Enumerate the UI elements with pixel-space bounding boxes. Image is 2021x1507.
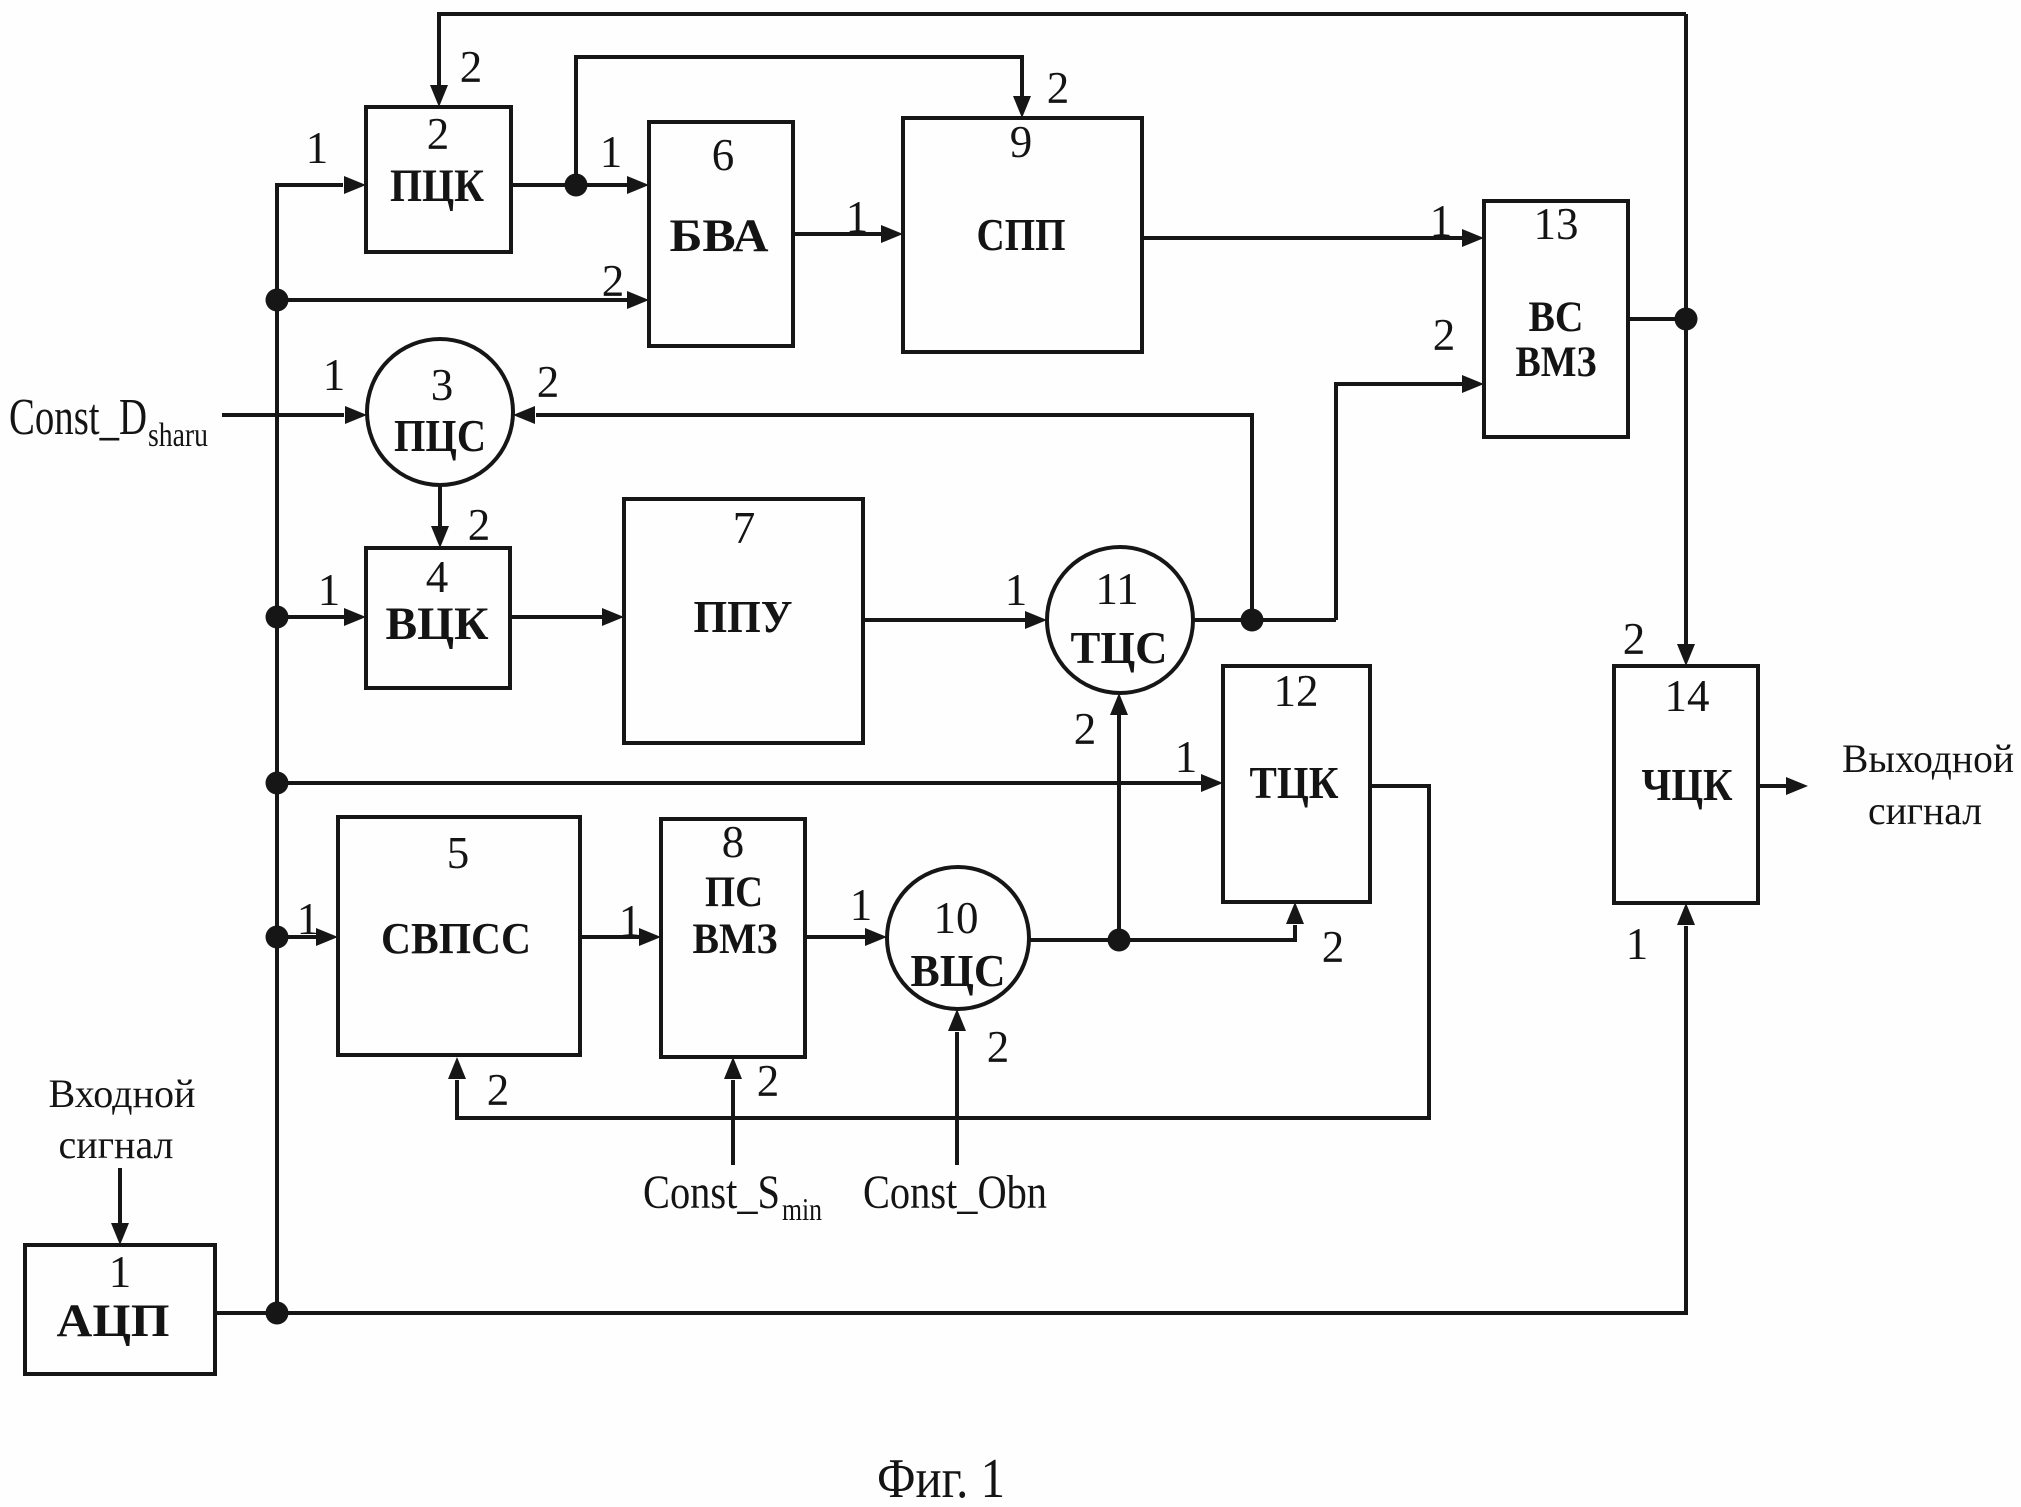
svg-text:13: 13 [1534,199,1579,249]
svg-text:Const_Obn: Const_Obn [863,1166,1047,1219]
block U7 ППУ [624,499,863,743]
svg-text:6: 6 [712,130,735,180]
svg-text:1: 1 [1430,196,1453,246]
svg-text:ВЦС: ВЦС [911,946,1006,996]
svg-text:сигнал: сигнал [1868,788,1982,833]
svg-text:1: 1 [323,350,346,400]
label Const_Obn [863,1166,1047,1219]
svg-text:1: 1 [850,880,873,930]
svg-text:12: 12 [1274,666,1319,716]
svg-text:АЦП: АЦП [57,1295,170,1347]
svg-text:5: 5 [447,828,470,878]
wire ТЦС output branch up to ВС ВМЗ input 2 [1336,310,1484,620]
svg-text:1: 1 [109,1247,132,1297]
svg-text:sharu: sharu [148,417,208,454]
svg-text:2: 2 [1322,922,1345,972]
svg-text:4: 4 [426,552,449,602]
block U6 БВА [649,122,793,346]
svg-text:ПЦС: ПЦС [394,411,486,461]
junction dot trunk-ТЦК [266,772,289,795]
svg-text:ТЦС: ТЦС [1071,623,1168,673]
svg-text:1: 1 [846,192,869,242]
wire trunk branch to ВЦК input 1 [277,565,366,626]
svg-text:ЧЦК: ЧЦК [1642,759,1733,810]
wire ВЦК output to ППУ [510,608,624,626]
svg-text:2: 2 [468,500,491,550]
wire СПП output to ВС ВМЗ input 1 [1142,196,1484,247]
wire ПЦК output up over to СПП input 2 [576,57,1069,185]
svg-text:2: 2 [537,357,560,407]
svg-text:1: 1 [306,123,329,173]
svg-text:СПП: СПП [977,210,1066,260]
svg-text:БВА: БВА [670,210,769,262]
block U12 ТЦК [1223,666,1370,902]
junction dot trunk-ВЦК [266,606,289,629]
label Const_D_sharu [9,389,208,454]
wire ППУ output 1 to ТЦС [863,565,1047,629]
svg-text:1: 1 [297,894,320,944]
svg-text:2: 2 [602,256,625,306]
wire feedback top horizontal to ПЦК input 2 [430,14,1686,107]
svg-text:2: 2 [1047,63,1070,113]
junction dot ПЦК output [565,174,588,197]
svg-text:14: 14 [1665,671,1710,721]
junction dot ТЦС output [1241,609,1264,632]
svg-text:СВПСС: СВПСС [381,914,531,963]
svg-text:3: 3 [431,360,454,410]
block U14 ЧЦК [1614,666,1758,903]
svg-text:ПЦК: ПЦК [390,160,484,212]
wire trunk branch to БВА input 2 [277,256,649,309]
svg-text:2: 2 [487,1065,510,1115]
block U2 ПЦК [366,107,511,252]
wire БВА output 1 to СПП input 1 [793,192,903,243]
wire trunk branch to СВПСС input 1 [277,894,338,946]
svg-text:11: 11 [1095,564,1138,614]
svg-text:ТЦК: ТЦК [1250,757,1339,808]
svg-text:ПС: ПС [705,869,763,916]
block U5 СВПСС [338,817,580,1055]
svg-text:ВМЗ: ВМЗ [1516,339,1597,386]
block U9 СПП [903,117,1142,352]
svg-text:2: 2 [1623,614,1646,664]
svg-text:7: 7 [733,503,756,553]
svg-text:Фиг. 1: Фиг. 1 [877,1448,1005,1507]
svg-text:1: 1 [600,127,623,177]
wire input signal arrow into АЦП [111,1168,129,1245]
wire СВПСС output 1 to ПС ВМЗ input 1 [580,896,661,946]
wire Const_D_sharu to ПЦС input 1 [222,350,367,424]
wire ТЦК output feedback to СВПСС input 2 [448,786,1429,1118]
svg-text:ВМЗ: ВМЗ [693,916,778,963]
wire ПЦК output 1 to БВА input 1 [511,127,649,194]
svg-text:Const_S: Const_S [643,1166,780,1219]
svg-text:1: 1 [318,565,341,615]
svg-text:Входной: Входной [49,1071,196,1116]
wire main trunk from ADC up to ПЦК input 1 [277,123,366,1313]
svg-text:1: 1 [1626,919,1649,969]
svg-text:8: 8 [722,817,745,867]
label Входной сигнал (input signal) [49,1071,196,1167]
junction dot АЦП output on trunk [266,1302,289,1325]
block U13 ВС ВМЗ [1484,199,1628,437]
junction dot ВС ВМЗ output [1675,308,1698,331]
svg-text:Const_D: Const_D [9,389,147,446]
adder U11 ТЦС (circle) [1047,547,1193,693]
svg-text:min: min [782,1191,822,1227]
wire ВС ВМЗ output to vertical trunk [1628,317,1686,321]
svg-text:1: 1 [1005,565,1028,615]
svg-text:ВС: ВС [1529,294,1584,341]
wire ВЦС output up to ТЦС input 2 [1074,693,1128,940]
wire ТЦС output up to ПЦС input 2 [513,357,1252,620]
svg-text:1: 1 [619,896,642,946]
block U4 ВЦК [366,548,510,688]
svg-text:1: 1 [1175,732,1198,782]
wire ЧЦК output (Выходной сигнал) [1758,777,1808,795]
svg-text:2: 2 [757,1056,780,1106]
block U8 ПС ВМЗ [661,817,805,1057]
adder U10 ВЦС (circle) [887,867,1029,1009]
wire ТЦС output to the right [1193,618,1336,622]
wire ВЦС output over and up to ТЦК input 2 [1029,902,1344,972]
svg-text:Выходной: Выходной [1842,736,2014,781]
block U1 ADC (АЦП) [25,1245,215,1374]
wire ПЦС output 2 down to ВЦК [431,485,490,550]
adder U3 ПЦС (circle) [367,339,513,485]
junction dot trunk-БВА [266,289,289,312]
svg-text:2: 2 [987,1022,1010,1072]
label Выходной сигнал (output signal) [1842,736,2014,833]
wire АЦП output along bottom up to ЧЦК input 1 [215,903,1695,1313]
wire ПС ВМЗ output 1 to ВЦС input 1 [805,880,887,946]
svg-text:2: 2 [427,109,450,159]
svg-text:9: 9 [1010,117,1033,167]
svg-text:сигнал: сигнал [59,1122,174,1167]
svg-text:ВЦК: ВЦК [386,598,489,650]
svg-text:10: 10 [934,893,979,943]
svg-text:2: 2 [1433,310,1456,360]
junction dot ВЦС output [1108,929,1131,952]
label Const_S_min [643,1166,822,1227]
svg-text:2: 2 [1074,704,1097,754]
wire Const_S_min up to ПС ВМЗ input 2 [724,1056,779,1165]
svg-text:ППУ: ППУ [694,591,793,642]
svg-text:2: 2 [460,42,483,92]
caption Фиг. 1 [877,1448,1005,1507]
wire feedback ВС ВМЗ output down to ЧЦК input 2 (vertical) [1623,14,1695,666]
wire trunk branch to ТЦК input 1 [277,732,1223,792]
wire Const_Obn up to ВЦС input 2 [948,1009,1009,1165]
junction dot trunk-СВПСС [266,926,289,949]
